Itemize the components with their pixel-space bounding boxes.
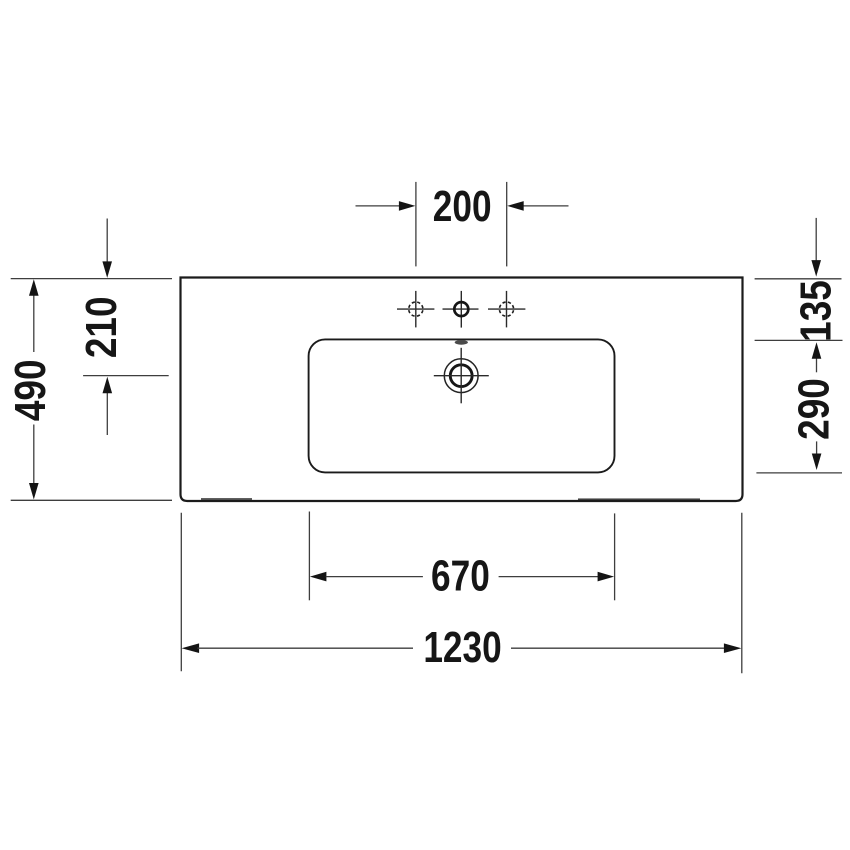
tap hole center crosshair: [443, 291, 479, 328]
dim 200 right arrow: [523, 205, 569, 207]
right extension line top (basin top level): [755, 278, 842, 280]
dim 210 bottom outside arrow: [106, 393, 108, 435]
dim 200 left arrow: [356, 205, 401, 207]
svg-text:200: 200: [433, 182, 492, 230]
dim 1230 left arrow: [182, 643, 200, 653]
dim 670 extension line right: [614, 513, 616, 600]
dim 200 extension line left: [415, 182, 417, 267]
dim 670 right arrow: [499, 576, 599, 578]
svg-text:135: 135: [791, 280, 841, 342]
tap hole center circle: [454, 302, 468, 316]
dim 490 extension line top: [11, 278, 172, 280]
tap hole left (dashed) crosshair: [397, 291, 434, 328]
svg-text:210: 210: [76, 296, 126, 358]
svg-text:290: 290: [789, 378, 839, 440]
dim 1230 extension line left: [180, 513, 182, 672]
svg-text:1230: 1230: [423, 623, 501, 671]
overflow slot ellipse: [455, 340, 468, 345]
dim 670 left arrow: [310, 572, 327, 582]
tap hole left (dashed) circle: [409, 302, 423, 316]
dim 490 line upper segment + up arrow: [33, 295, 35, 353]
dim 290 down arrow: [816, 441, 818, 456]
dim 200 extension line right: [506, 182, 508, 267]
tap hole right (dashed) crosshair: [488, 291, 525, 328]
dim 1230 right arrow: [511, 647, 726, 649]
svg-text:490: 490: [5, 359, 55, 421]
dim 490 extension line bottom: [11, 499, 172, 501]
basin bottom edge accent left: [201, 498, 252, 500]
tap hole right (dashed) circle: [499, 302, 513, 316]
drain outer circle: [444, 359, 478, 393]
dim 210 top outside arrow: [106, 219, 108, 264]
dim 135 top outside arrow: [815, 218, 817, 262]
right extension line middle (bowl top level): [755, 339, 843, 341]
dim 490 line lower segment + down arrow: [33, 425, 35, 485]
drain crosshair: [434, 348, 489, 404]
inner bowl rounded rectangle: [309, 339, 615, 472]
basin bottom edge accent right: [578, 498, 700, 500]
svg-text:670: 670: [431, 552, 490, 600]
basin outer rectangle: [181, 278, 743, 502]
dim 290 up arrow: [816, 358, 818, 372]
right extension line bottom (bowl bottom level): [756, 472, 842, 474]
dim 1230 extension line right: [741, 513, 743, 674]
drain inner circle: [450, 365, 472, 387]
dim 670 extension line left: [308, 512, 310, 601]
dim 210 tick line at drain level: [83, 375, 169, 377]
